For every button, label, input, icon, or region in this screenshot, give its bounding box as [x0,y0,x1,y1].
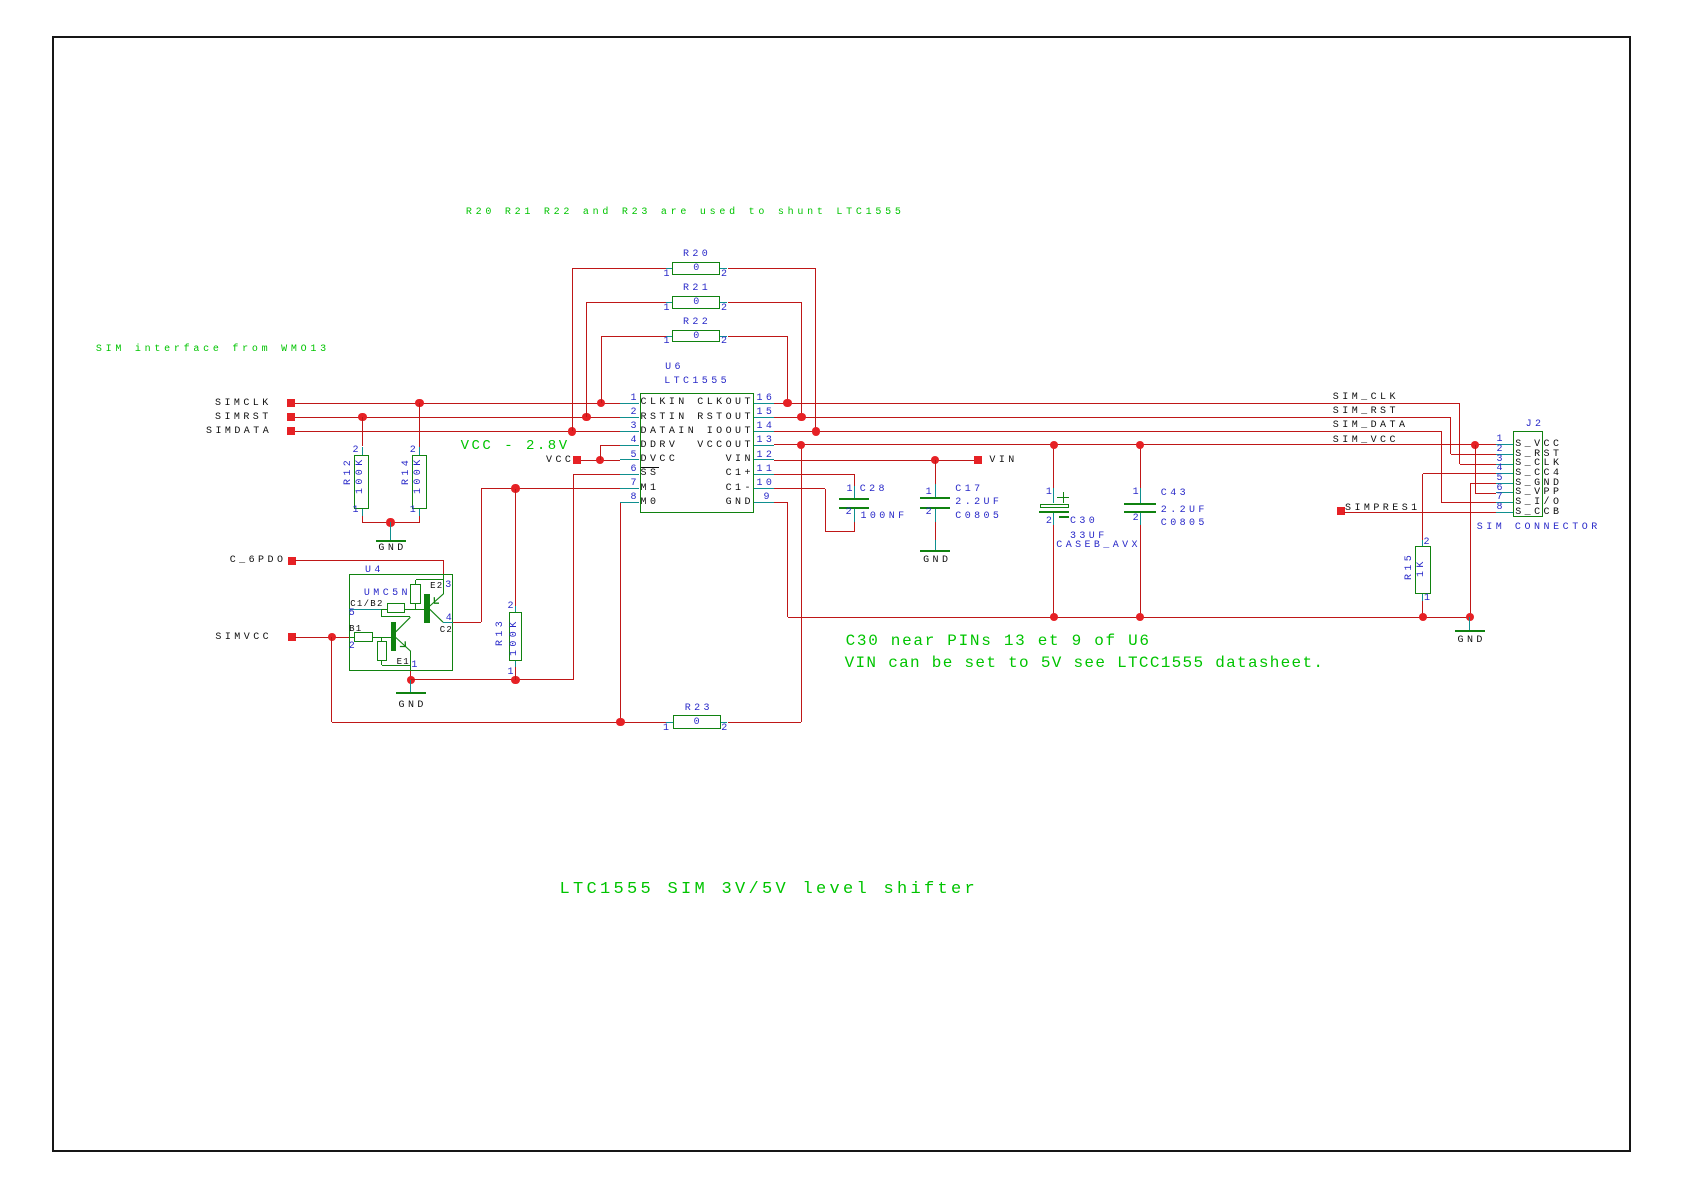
pin name SS U6 [641,469,660,479]
pin 7 stub U6 [620,488,640,489]
wire R21 pin2 [728,302,802,303]
pin 13 stub U6 [754,445,774,446]
pin number 1 U6 [631,394,640,404]
pin name S_VPP J2 [1515,488,1562,498]
ground bar U4 [396,692,426,694]
resistor R23 [673,715,720,729]
pin number 1 J2 [1497,435,1506,445]
value 0 R20 [693,264,702,274]
pin1 stub R13 [515,661,516,667]
resistor R13 [509,612,523,661]
pin3 inner lead U4 [443,574,444,594]
pin name CLKIN U6 [641,398,688,408]
pin name DVCC U6 [641,455,679,465]
pin number 2 U4 [349,642,358,652]
pin 4 stub U4 [443,622,453,623]
refdes R23 [685,704,713,714]
wire R23 riser [801,445,802,723]
label GND 1 [378,544,406,554]
pin2 stub R14 [419,447,420,456]
pin number 4 J2 [1497,464,1506,474]
junction SIMCLK/R14 [415,399,423,407]
value 100K R13 [510,618,520,656]
label SIM_VCC [1333,436,1399,446]
pin 5 stub J2 [1496,483,1513,484]
junction VIN/C17 [931,456,939,464]
pin name C1+ U6 [726,469,754,479]
pin 1 R12 [353,506,362,516]
Q2 shunt res top link [416,579,444,580]
pin 6 stub J2 [1496,492,1513,493]
wire C_6PDO down to U4 [443,561,444,574]
plus sign C30 [1057,497,1069,498]
junction VCC [596,456,604,464]
note VCC 2.8V [461,439,570,453]
resistor R22 [672,330,720,342]
E1 inner lead [410,651,411,670]
pin number 7 U6 [631,479,640,489]
pin2 stub C17 [935,509,936,523]
pin 2 R13 [508,602,517,612]
junction C30 bottom [1050,613,1058,621]
wire CLKOUT bus [774,403,1460,404]
wire R14 bottom [391,522,420,523]
pin name VIN U6 [726,455,754,465]
wire R15 top [1422,474,1423,541]
pin1 stub R15 [1422,594,1423,601]
wire U6 C1- [774,488,825,489]
wire R21 left riser [586,302,587,417]
pin1 stub R14 [419,509,420,516]
wire SIMRST to U6 pin2 [295,417,620,418]
junction R12/R14 GND [386,518,394,526]
wire R21 right riser [801,302,802,417]
value 100NF C28 [861,512,908,522]
label GND 4 [1458,636,1486,646]
wire C43 top [1140,445,1141,489]
Q2 shunt res top lead [415,580,416,584]
pin name E1 U4 [397,658,410,667]
pin number 8 U6 [631,493,640,503]
pin 1 R22 [664,337,673,347]
pin number 16 U6 [757,394,776,404]
wire R22 pin1 [601,336,666,337]
wire RSTOUT bus [774,417,1451,418]
wire SIM_CLK down [1459,403,1460,464]
pin number 5 U6 [631,451,640,461]
value UMC5N [364,589,411,599]
pin 14 stub U6 [754,431,774,432]
resistor R12 [354,455,369,509]
wire E1 down [410,671,411,680]
wire SIMDATA to U6 pin3 [295,431,620,432]
gnd lead U4 [410,680,411,693]
pin number 4 U6 [631,436,640,446]
wire R22 right riser [787,336,788,403]
wire C17 bottom [935,522,936,540]
pin 3 stub U6 [620,431,640,432]
wire R22 left riser [601,336,602,403]
junction CLKOUT/R22 [783,399,791,407]
junction R13 top [511,484,519,492]
title LTC1555 level shifter [560,881,979,898]
pin 6 stub U6 [620,474,640,475]
base link Q1 [373,637,392,638]
pin 1 R15 [1424,594,1433,604]
pin name M0 U6 [641,498,660,508]
pin number 7 J2 [1497,493,1506,503]
gnd lead right [1469,617,1470,631]
pin number 5 U4 [349,609,358,619]
wire VCC up [600,446,601,461]
net flag VCC [573,456,581,464]
pin2 stub C30 [1053,513,1054,525]
junction SIMRST/R12 [358,413,366,421]
note C30 placement [846,633,1151,649]
pin name DATAIN U6 [641,427,698,437]
refdes R14 [402,456,412,484]
pin name S_CLK J2 [1515,459,1562,469]
value 100K R12 [356,456,366,494]
wire R21 pin1 [587,302,666,303]
label SIMPRES1 [1345,504,1421,514]
resistor Q2 shunt [410,584,420,604]
junction R15/gnd rail [1419,613,1427,621]
pin 3 stub J2 [1496,464,1513,465]
pin number 4 U4 [446,614,455,624]
pin name DDRV U6 [641,441,679,451]
pin name C1/B2 U4 [350,600,384,609]
wire to J2 pin3 [1460,464,1496,465]
junction U4 gnd [407,676,415,684]
junction SIMVCC [328,633,336,641]
label SIM CONNECTOR [1477,523,1601,533]
refdes U4 [365,566,384,576]
pin number 3 U4 [445,581,454,591]
plus sign C30 v [1063,492,1064,503]
pin2 stub R23 [721,722,728,723]
label GND 2 [399,701,427,711]
node line pin5 down [381,609,382,617]
pin2 stub R22 [720,336,727,337]
pin number 2 U6 [631,408,640,418]
footprint CASEB_AVX C30 [1056,541,1141,551]
pin 2 C43 [1133,514,1142,524]
ground bar C17 [920,550,950,552]
pin number 1 U4 [411,661,420,671]
Q1 shunt res top lead [381,637,382,641]
transistor Q1 bar [391,622,396,650]
junction SIM_VCC/VPP [1471,441,1479,449]
wire C30 bottom [1053,525,1054,617]
pin number 15 U6 [757,408,776,418]
ground bar right [1455,630,1485,632]
wire C_6PDO [295,560,444,561]
pin 1 C43 [1133,488,1142,498]
pin 2 R23 [721,724,730,734]
pin name CLKOUT U6 [697,398,754,408]
wire VIN [774,460,974,461]
wire SIMVCC down [331,637,332,722]
refdes R22 [683,318,711,328]
pin name C1- U6 [726,484,754,494]
net flag SIMCLK [287,399,295,407]
pin name RSTIN U6 [641,413,688,423]
pin number 13 U6 [757,436,776,446]
pin 2 R14 [410,446,419,456]
pin 2 R22 [721,337,730,347]
plate1 C30 [1040,504,1069,509]
refdes R13 [496,617,506,645]
wire R20 left riser [572,268,573,431]
value 33UF C30 [1070,532,1108,542]
pin 2 stub U6 [620,417,640,418]
label VIN [989,456,1017,466]
pin number 10 U6 [757,479,776,489]
refdes R21 [683,284,711,294]
pin 8 stub U6 [620,502,640,503]
wire U6 pin7 down [481,489,482,622]
wire SIMCLK down to R14 [419,403,420,447]
value 0 R22 [693,332,702,342]
pin name S_CC4 J2 [1515,469,1562,479]
pin 7 stub J2 [1496,502,1513,503]
pin number 6 U6 [631,465,640,475]
pin 5 stub U6 [620,459,640,460]
pin2 stub R13 [515,606,516,612]
wire U6 pin7 [481,488,619,489]
Q1 shunt bottom link [382,665,411,666]
label SIM_DATA [1333,421,1409,431]
net flag C_6PDO [288,557,296,565]
wire SIM_DATA down [1441,431,1442,502]
wire gnd rail down [787,503,788,617]
ground bar R12R14 [376,540,406,542]
wire SIMCLK to U6 pin1 [295,403,620,404]
wire R20 pin2 [728,268,816,269]
net flag VIN [974,456,982,464]
note shunt resistors [466,208,905,218]
pin number 8 J2 [1497,503,1506,513]
wire VCCOUT bus [774,444,1496,445]
plate1 C28 [839,498,869,500]
pin 10 stub U6 [754,488,774,489]
note VIN 5V [845,655,1325,671]
pin1 stub R12 [362,509,363,516]
pin number 6 J2 [1497,484,1506,494]
transistor pack U4 body [349,574,454,671]
junction IOOUT/R20 [812,427,820,435]
wire VCC to U6 pin5 [581,460,620,461]
junction gnd rail end [1466,613,1474,621]
wire C30 top [1053,445,1054,489]
wire R13 bottom [515,667,516,680]
transistor U4 diagonals [390,575,450,675]
pin number 14 U6 [757,422,776,432]
pin 1 C17 [926,488,935,498]
label SIMVCC [215,633,272,643]
value 2.2UF C17 [955,498,1002,508]
pin name S_CCB J2 [1515,508,1562,518]
note SIM interface [96,345,330,355]
wire SIMVCC to U4 [295,637,349,638]
pin name VCCOUT U6 [697,441,754,451]
value 2.2UF C43 [1161,506,1208,516]
pin name M1 U6 [641,484,660,494]
value 1K R15 [1417,558,1427,577]
wire C43 bottom [1140,525,1141,617]
wire S_VPP down [1475,445,1476,493]
pin 1 R21 [664,304,673,314]
pin1 stub C43 [1140,488,1141,503]
wire R14 to GND node [419,516,420,523]
Q2 shunt res bottom lead [415,604,416,609]
wire SS down [573,474,574,680]
footprint C0805 C17 [955,512,1002,522]
pin 2 C28 [846,508,855,518]
pin 1 stub U6 [620,403,640,404]
wire S_CC4 [1423,473,1497,474]
pin 11 stub U6 [754,474,774,475]
junction C30 top [1050,441,1058,449]
pin 15 stub U6 [754,417,774,418]
wire R15 bottom [1422,601,1423,617]
pin name S_GND J2 [1515,479,1562,489]
wire to U6 pin4 [600,445,620,446]
pin 16 stub U6 [754,403,774,404]
wire U6 pin8 down [620,503,621,723]
connector J2 body [1513,431,1543,517]
pin2 stub R12 [362,447,363,456]
junction SIMRST/R21 [582,413,590,421]
pin 1 R20 [664,270,673,280]
junction SIMCLK/R22 [597,399,605,407]
pin number 9 U6 [764,493,773,503]
footprint C0805 C43 [1161,519,1208,529]
value LTC1555 [664,377,730,387]
net flag SIMVCC [288,633,296,641]
pin1 stub C17 [935,484,936,498]
wire to J2 pin2 [1451,454,1497,455]
resistor Q2 base [387,603,406,613]
wire R20 pin1 [572,268,666,269]
wire C17 top [935,460,936,484]
resistor R21 [672,296,720,308]
wire R13 up [515,489,516,607]
refdes C30 [1070,517,1098,527]
pin 9 stub U6 [754,502,774,503]
pin 1 R23 [663,724,672,734]
wire C28 top hook [854,474,855,486]
label GND 3 [923,556,951,566]
wire to R23 pin1 [332,722,666,723]
pin 1 C30 [1046,488,1055,498]
plate2 C30 [1039,511,1069,513]
junction pin8/R23 [616,718,624,726]
junction SIMDATA/R20 [568,427,576,435]
pin 1 R14 [410,506,419,516]
pin 8 stub J2 [1496,512,1513,513]
pin 12 stub U6 [754,459,774,460]
wire to J2 pin6 [1475,493,1496,494]
resistor Q1 shunt [377,641,387,661]
gnd lead [390,522,391,541]
pin name C2 U4 [440,626,453,635]
junction C43 top [1136,441,1144,449]
value 0 R23 [694,718,703,728]
plate2 C43 [1124,511,1156,513]
value 100K R14 [414,456,424,494]
wire U6 C1+ [774,474,855,475]
pin1 stub R21 [666,302,672,303]
pin number 2 J2 [1497,445,1506,455]
wire R23 pin2 [728,722,802,723]
pin 1 R13 [508,668,517,678]
wire gnd rail [788,617,1470,618]
pin2 stub R20 [720,268,727,269]
label SIMCLK [215,399,272,409]
value 0 R21 [693,298,702,308]
pin number 3 U6 [631,422,640,432]
refdes J2 [1526,420,1545,430]
pin 2 C17 [926,508,935,518]
pin1 stub R23 [666,722,673,723]
wire U6 pin6 [573,474,620,475]
refdes C28 [860,485,888,495]
Q1 shunt res bottom lead [381,661,382,665]
pin 2 stub J2 [1496,454,1513,455]
pin name RSTOUT U6 [697,413,754,423]
pin2 stub R15 [1422,540,1423,546]
pin 4 stub U6 [620,445,640,446]
base link Q2b [405,609,424,610]
junction R13 bottom [511,676,519,684]
pin 1 C28 [847,485,856,495]
pin 2 R12 [353,446,362,456]
transistor Q2 bar [424,594,430,623]
label SIM_CLK [1333,393,1399,403]
refdes C17 [955,485,983,495]
net flag SIMPRES1 [1337,507,1345,515]
refdes C43 [1161,489,1189,499]
base link Q2 [381,609,387,610]
refdes R15 [1405,551,1415,579]
net flag SIMDATA [287,427,295,435]
wire SIMRST down to R12 [362,417,363,446]
junction VCCOUT/R23 [797,441,805,449]
refdes R12 [344,456,354,484]
resistor R20 [672,262,720,274]
pin2 link U4 [349,637,354,638]
pin 2 R21 [721,304,730,314]
pin1 stub R20 [666,268,672,269]
pin2 stub C28 [854,509,855,522]
wire SIMPRES1 to J2 pin8 [1344,512,1496,513]
plate1 C17 [920,497,950,499]
wire S_GND down [1470,483,1471,617]
node line to C1 [381,616,410,617]
junction C43 bottom [1136,613,1144,621]
wire to J2 pin7 [1441,502,1496,503]
ic U6 body [640,393,755,513]
wire S_GND [1470,483,1496,484]
pin number 3 J2 [1497,455,1506,465]
pin 2 R15 [1424,538,1433,548]
wire C28 bottom link [825,531,855,532]
pin1 stub C28 [854,486,855,498]
pin 1 stub J2 [1496,444,1513,445]
wire C28 bottom up [854,522,855,532]
